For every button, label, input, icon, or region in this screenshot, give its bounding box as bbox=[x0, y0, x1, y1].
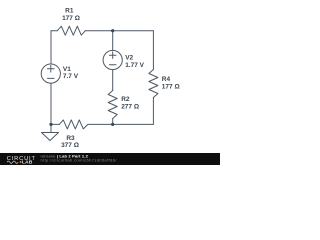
wire V2 bottom to R2 top bbox=[112, 70, 114, 91]
footer logo dot bbox=[20, 161, 22, 163]
svg-text:277 Ω: 277 Ω bbox=[121, 103, 139, 110]
wire right vertical lower (R4 bottom to rail) bbox=[152, 98, 154, 125]
node junction top (R1/V2/R4 net) bbox=[111, 29, 114, 32]
V1 plus sign bbox=[48, 66, 55, 73]
resistor R2 bbox=[108, 91, 117, 119]
node junction ground-left bbox=[49, 123, 52, 126]
resistor R1 bbox=[57, 26, 85, 35]
svg-text:R4: R4 bbox=[162, 76, 171, 83]
svg-text:7.7 V: 7.7 V bbox=[63, 73, 79, 80]
wire top rail right segment bbox=[85, 30, 153, 32]
svg-text:V1: V1 bbox=[63, 66, 71, 73]
svg-text:LAB: LAB bbox=[22, 159, 33, 165]
voltage source V2 bbox=[103, 50, 122, 69]
wire ground stub bbox=[50, 124, 52, 132]
svg-text:377 Ω: 377 Ω bbox=[61, 142, 79, 149]
svg-text:http://circuitlab.com/c6h7zdb5: http://circuitlab.com/c6h7zdb5effd6/ bbox=[41, 158, 118, 163]
wire bottom rail left lead bbox=[51, 123, 59, 125]
V1 minus sign bbox=[48, 77, 55, 79]
wire top rail left lead bbox=[51, 30, 57, 32]
wire top-left vertical (corner to V1 top) bbox=[50, 31, 52, 64]
wire V2 branch upper (top rail to V2 top) bbox=[112, 31, 114, 51]
ground bbox=[42, 133, 59, 141]
wire left vertical lower (V1 bottom to ground node) bbox=[50, 83, 52, 124]
resistor R3 bbox=[59, 120, 88, 129]
footer bar bbox=[0, 153, 220, 165]
svg-text:R2: R2 bbox=[121, 96, 130, 103]
footer logo waveform bbox=[7, 161, 18, 163]
wire bottom rail right segment bbox=[88, 123, 153, 125]
V2 plus sign bbox=[109, 52, 116, 59]
svg-text:177 Ω: 177 Ω bbox=[162, 83, 180, 90]
V2 minus sign bbox=[109, 64, 116, 66]
svg-text:1.77 V: 1.77 V bbox=[125, 62, 144, 69]
wire right vertical upper (to R4 top) bbox=[152, 31, 154, 70]
node junction bottom (R2/R3/R4 net) bbox=[111, 123, 114, 126]
svg-text:177 Ω: 177 Ω bbox=[62, 15, 80, 22]
resistor R4 bbox=[149, 70, 158, 98]
svg-text:R1: R1 bbox=[65, 8, 74, 15]
svg-text:V2: V2 bbox=[125, 55, 133, 62]
wire R2 bottom to rail bbox=[112, 119, 114, 125]
voltage source V1 bbox=[41, 64, 60, 83]
